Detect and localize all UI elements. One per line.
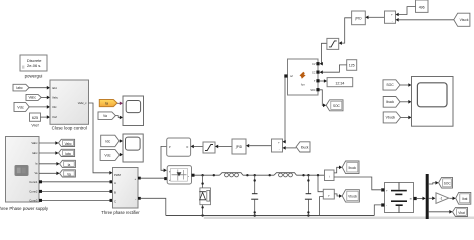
svg-text:-: - — [279, 148, 280, 152]
svg-text:Ibuck: Ibuck — [301, 145, 309, 149]
svg-text:Idc: Idc — [105, 139, 110, 143]
goto tag SOC (battery) — [326, 100, 343, 111]
goto tag Ibat — [456, 192, 471, 204]
current measurement block (Ibuck) — [325, 170, 335, 181]
svg-text:Vbuck: Vbuck — [460, 18, 469, 22]
svg-text:fcn: fcn — [301, 83, 305, 87]
svg-text:Vabc_c: Vabc_c — [78, 101, 87, 105]
svg-text:-: - — [386, 204, 387, 208]
svg-text:2e-06 s.: 2e-06 s. — [27, 63, 41, 68]
From tag Vdc (scope) — [100, 150, 119, 161]
wire battery ref to sum (current loop) — [283, 78, 286, 144]
wire SOC output to goto SOC — [320, 90, 327, 107]
wire demux to goto SOC — [429, 181, 439, 185]
wire sum to PID (voltage loop) — [365, 16, 384, 20]
powergui block — [20, 55, 47, 79]
From tag Vabc — [26, 94, 41, 100]
svg-text:C: C — [114, 199, 116, 203]
svg-text:Conn3: Conn3 — [29, 199, 38, 203]
svg-text:powergui: powergui — [25, 74, 43, 79]
svg-text:Vref: Vref — [31, 123, 39, 128]
From tag Va — [98, 112, 115, 120]
wire voltage tap (top) — [318, 175, 323, 192]
From tag Idc — [101, 135, 119, 147]
svg-text:Ia: Ia — [105, 101, 108, 105]
svg-text:+: + — [391, 13, 393, 17]
svg-text:Three phase rectifier: Three phase rectifier — [101, 210, 140, 215]
svg-text:SOC: SOC — [310, 89, 315, 92]
wire Va to scope — [115, 116, 123, 120]
wire Iabc to control input 1 — [29, 86, 50, 90]
svg-text:Iabc: Iabc — [65, 152, 71, 156]
svg-text:Vbuck: Vbuck — [348, 195, 357, 199]
wire 496 to sum — [396, 7, 416, 17]
wire Conn3 to rectifier C — [39, 199, 113, 202]
wire PID (voltage loop) to saturation — [339, 18, 352, 45]
svg-text:Ibuck: Ibuck — [386, 100, 394, 104]
goto tag Ia — [60, 160, 76, 167]
wire supply Vabc to goto — [39, 141, 59, 145]
capacitor C1 — [251, 175, 258, 215]
svg-text:Va: Va — [103, 114, 107, 118]
wire demux to goto Vbat — [429, 210, 453, 214]
goto tag Vabc — [59, 139, 75, 146]
diode D1 (freewheeling) — [199, 175, 210, 215]
svg-text:+: + — [135, 177, 137, 181]
wire sum to PID — [246, 144, 272, 148]
scope SOC/Ibuck/Vbuck — [412, 77, 454, 127]
wire Conn1 to rectifier A — [39, 180, 113, 183]
From tag Ibuck (current loop, mirrored) — [296, 142, 310, 152]
goto tag Vbat — [453, 207, 468, 216]
svg-text:Three Phase power supply: Three Phase power supply — [0, 206, 49, 211]
wire rectifier + to MOSFET — [138, 177, 167, 180]
wire battery m to demux — [417, 197, 426, 201]
wire Vdc to control input 3 — [29, 105, 50, 109]
battery charger fcn block — [284, 59, 319, 95]
svg-text:-: - — [392, 19, 393, 23]
goto tag Vbuck — [342, 190, 359, 202]
goto tag Iabc — [59, 149, 75, 156]
wire Vref to control input 4 — [41, 115, 51, 119]
svg-text:Conn1: Conn1 — [29, 180, 38, 184]
wire supply Va to goto — [39, 172, 60, 176]
svg-text:CV: CV — [312, 63, 316, 66]
svg-text:Iabc: Iabc — [52, 86, 58, 90]
wire saturation to PWM generator — [191, 145, 203, 149]
wire supply Ia to goto — [39, 162, 60, 166]
constant 125 — [347, 60, 357, 71]
PID controller block (current loop) — [232, 139, 246, 154]
goto tag Ibuck — [342, 161, 359, 174]
constant 496 — [416, 0, 429, 12]
MOSFET block — [167, 166, 191, 184]
goto tag Va — [60, 170, 76, 177]
svg-text:m: m — [410, 197, 412, 200]
wire current measurement i to goto Ibuck — [334, 166, 342, 173]
wire Vbuck to scope — [401, 116, 412, 120]
wire T output to display — [320, 79, 328, 83]
svg-text:SOC: SOC — [333, 104, 341, 108]
scope Idc/Vdc — [123, 134, 143, 162]
wire current measurement to battery + — [334, 177, 381, 190]
svg-text:∫PID: ∫PID — [235, 145, 243, 149]
wire gain to goto Ibat — [450, 197, 456, 201]
svg-text:CC: CC — [312, 71, 316, 74]
wire PID to saturation — [215, 145, 232, 149]
From tag SOC (to scope) — [383, 80, 400, 90]
demux bus selector bar — [426, 174, 429, 219]
svg-text:Vref: Vref — [52, 115, 57, 119]
wire Vbuck tag to sum — [396, 18, 454, 22]
constant Vref 625 — [30, 113, 41, 128]
svg-text:Ibuck: Ibuck — [348, 166, 356, 170]
wire supply Iabc to goto — [39, 151, 59, 155]
svg-text:D: D — [186, 146, 188, 149]
svg-text:Conn2: Conn2 — [29, 190, 38, 194]
svg-text:125: 125 — [349, 64, 355, 68]
From tag Ibuck (to scope) — [383, 97, 400, 108]
From tag Vbuck (to scope) — [383, 112, 400, 123]
svg-text:-: - — [135, 197, 136, 201]
block PWM generator — [167, 138, 191, 156]
svg-text:∫PID: ∫PID — [354, 17, 362, 21]
svg-text:-1: -1 — [440, 197, 443, 201]
inductor L2 — [274, 173, 297, 177]
wire top rail (MOSFET s to current measurement) — [192, 174, 325, 177]
wire saturation (voltage loop) to CV input — [320, 43, 327, 65]
svg-text:Vabc: Vabc — [65, 142, 72, 146]
svg-text:Vbat: Vbat — [458, 211, 465, 215]
svg-text:Ibat: Ibat — [462, 197, 467, 201]
block Three Phase power supply — [0, 137, 49, 212]
sum block (current loop) — [272, 139, 283, 152]
svg-text:Vbuck: Vbuck — [386, 116, 396, 120]
inductor L1 — [220, 173, 244, 177]
wire Ia to scope — [117, 102, 123, 106]
display 12:34 — [327, 78, 353, 87]
svg-text:12:34: 12:34 — [335, 81, 344, 85]
svg-text:A: A — [114, 181, 116, 185]
wire 125 to CC input — [320, 65, 347, 74]
goto tag SOC (right) — [439, 177, 453, 188]
battery block — [381, 183, 417, 213]
svg-text:Vabc: Vabc — [28, 96, 36, 100]
wire PWM gen output to MOSFET gate — [161, 146, 167, 172]
svg-text:Vdc: Vdc — [17, 105, 24, 109]
capacitor C2 — [305, 175, 312, 215]
svg-text:+: + — [278, 141, 280, 145]
svg-text:Close loop control: Close loop control — [52, 126, 87, 131]
canvas bottom edge band — [204, 217, 474, 220]
bottom rail — [166, 214, 374, 216]
wire Idc to scope — [119, 139, 123, 143]
svg-text:Ia: Ia — [68, 163, 71, 167]
svg-text:B: B — [114, 190, 116, 194]
sum block (voltage loop) — [385, 11, 396, 23]
wire rectifier - to bottom rail — [138, 197, 166, 216]
svg-text:Iabc: Iabc — [16, 86, 23, 90]
block Three phase rectifier — [101, 168, 140, 216]
wire Ibuck to scope — [400, 100, 412, 104]
wire Vabc to control input 2 — [41, 96, 50, 100]
saturation block (current loop) — [203, 142, 215, 153]
wire SOC to scope — [400, 83, 412, 87]
From tag Vdc — [14, 102, 29, 111]
From tag Iabc — [13, 84, 29, 91]
svg-text:Vdc: Vdc — [104, 153, 110, 157]
PID controller block (voltage loop) — [352, 11, 366, 25]
svg-text:496: 496 — [419, 5, 425, 9]
wire Vabc_c to rectifier PWM input — [89, 103, 113, 175]
wire Ibuck tag to sum — [283, 146, 297, 150]
svg-text:SOC: SOC — [386, 83, 394, 87]
svg-text:ref: ref — [290, 75, 293, 78]
wire battery - to bottom rail — [374, 205, 381, 216]
From tag Vbuck (voltage loop, mirrored) — [454, 13, 470, 26]
svg-text:Vabc: Vabc — [52, 95, 59, 99]
svg-text:SOC: SOC — [444, 182, 452, 186]
From tag Ia (orange) — [99, 100, 117, 107]
wire Vdc to scope — [119, 153, 123, 157]
wire voltage measurement to goto Vbuck — [334, 194, 342, 198]
svg-text:625: 625 — [32, 116, 38, 120]
saturation block (voltage loop) — [327, 38, 339, 49]
svg-text:PWM: PWM — [114, 173, 122, 177]
wire Conn2 to rectifier B — [39, 190, 113, 193]
gain -1 — [436, 193, 449, 204]
wire demux to gain — [429, 197, 436, 201]
voltage measurement block (Vbuck) — [323, 189, 334, 199]
subsystem Close loop control — [50, 80, 89, 131]
wire voltage measurement lower terminal to bottom rail — [320, 197, 324, 216]
scope Ia/Va — [123, 96, 144, 126]
svg-text:Vdc: Vdc — [52, 105, 57, 109]
svg-text:Va: Va — [67, 172, 71, 176]
svg-text:Iabc: Iabc — [32, 151, 38, 155]
svg-text:Vabc: Vabc — [31, 141, 38, 145]
